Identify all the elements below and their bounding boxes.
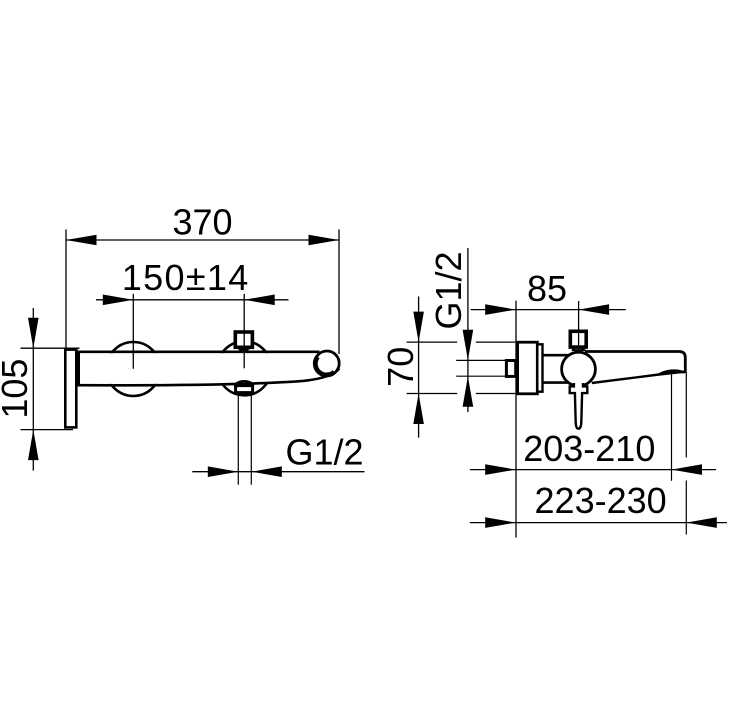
svg-text:223-230: 223-230 <box>535 480 667 521</box>
svg-text:85: 85 <box>527 268 567 309</box>
dim G1/2 side arrow bottom <box>463 376 474 407</box>
dim 70 ext bottom b <box>476 393 515 395</box>
svg-text:G1/2: G1/2 <box>428 251 469 329</box>
lever handle (side) <box>570 383 588 429</box>
dim 105 arrow top <box>28 318 39 349</box>
dim 70 arrow bottom <box>413 394 424 425</box>
knob flange left <box>573 347 575 350</box>
dim G1/2 front arrow right <box>251 466 281 477</box>
dim 70 ext top b <box>476 341 515 343</box>
dim 223-230 line <box>470 522 727 524</box>
dim 105 ext line top <box>21 347 80 349</box>
dim G1/2 front arrow left <box>208 466 239 477</box>
wall plate lip <box>537 344 542 391</box>
rosette right (wall escutcheon circle) <box>217 341 271 395</box>
knob flange bottom <box>572 349 586 351</box>
lower union nut ellipse top <box>235 381 253 391</box>
dim 370 arrow right <box>309 235 340 246</box>
dim G1/2 side arrow top <box>463 330 474 361</box>
dim 370 arrow left <box>66 235 97 246</box>
svg-text:G1/2: G1/2 <box>286 431 364 472</box>
rosette left (wall escutcheon circle) <box>106 342 160 396</box>
body bottom edge (sweeping up to spout tip) <box>76 369 339 386</box>
wall plate (side) <box>518 342 538 394</box>
body top edge <box>76 350 319 353</box>
dim 70 ext bottom a <box>407 393 458 395</box>
dim 105 ext line bottom <box>21 429 74 431</box>
spout top edge with rounded tip corner <box>585 352 685 372</box>
diverter knob (front) <box>235 332 252 347</box>
svg-text:70: 70 <box>380 347 421 387</box>
svg-text:105: 105 <box>0 359 35 419</box>
dim G1/2 front ext line right <box>250 394 252 485</box>
knob neck right line <box>247 347 249 349</box>
dim 223-230 ext line lower <box>685 481 687 535</box>
dim 105 arrow bottom <box>28 430 39 461</box>
dim 85 arrow left <box>485 304 516 315</box>
dim 150±14 line <box>96 299 289 301</box>
dim 85 arrow right <box>579 304 610 315</box>
dim 223-230 ext line upper <box>685 372 687 458</box>
dim 223-230 arrow left <box>485 517 516 528</box>
dim G1/2 front ext line left <box>237 394 239 485</box>
dim 203-210 arrow right <box>672 464 703 475</box>
aerator bump (filled) <box>656 369 687 375</box>
dim 223-230 arrow right <box>686 517 717 528</box>
svg-text:370: 370 <box>172 201 232 242</box>
body mask (white fill of mixer body) <box>77 353 305 384</box>
thread line bottom <box>456 375 506 377</box>
dim 150 arrow right <box>244 295 275 306</box>
cartridge body circle <box>562 352 596 386</box>
body left cap line <box>77 352 80 385</box>
knob neck bottom line <box>239 349 248 351</box>
inlet nipple nut <box>506 361 515 377</box>
dim 105 line <box>32 308 34 471</box>
dim 370 ext line left <box>65 229 67 348</box>
centerline left inlet <box>132 294 134 369</box>
thread line top <box>456 359 506 361</box>
spout bottom edge <box>592 372 686 383</box>
dim 370 ext line right <box>338 229 340 354</box>
knob flange right <box>582 347 584 350</box>
knob centerline <box>578 301 580 352</box>
dim 370 line <box>66 239 339 241</box>
dim 70 line <box>418 297 420 438</box>
dim 203-210 ext line <box>671 375 673 481</box>
neck tube top <box>543 354 573 357</box>
svg-text:150±14: 150±14 <box>122 257 250 298</box>
centerline right inlet <box>243 294 245 369</box>
neck tube bottom <box>543 381 573 384</box>
dim 150 arrow left <box>103 295 134 306</box>
dim 70 arrow top <box>413 312 424 343</box>
dim 203-210 line <box>470 469 716 471</box>
spout tip ring thick lower arc <box>315 357 334 375</box>
wall plane line <box>515 301 517 538</box>
handle bar (lever seen from front) <box>65 350 76 428</box>
knob neck left line <box>238 347 240 349</box>
lower union nut body <box>236 386 253 393</box>
dim G1/2 front line <box>192 471 364 473</box>
spout tip ring <box>315 351 340 376</box>
svg-text:203-210: 203-210 <box>523 428 655 469</box>
dim 85 line <box>471 309 626 311</box>
diverter knob (side) <box>570 331 586 347</box>
dim 70 ext top a <box>407 341 458 343</box>
dim 203-210 arrow left <box>485 464 516 475</box>
dim G1/2 side line <box>467 248 469 412</box>
